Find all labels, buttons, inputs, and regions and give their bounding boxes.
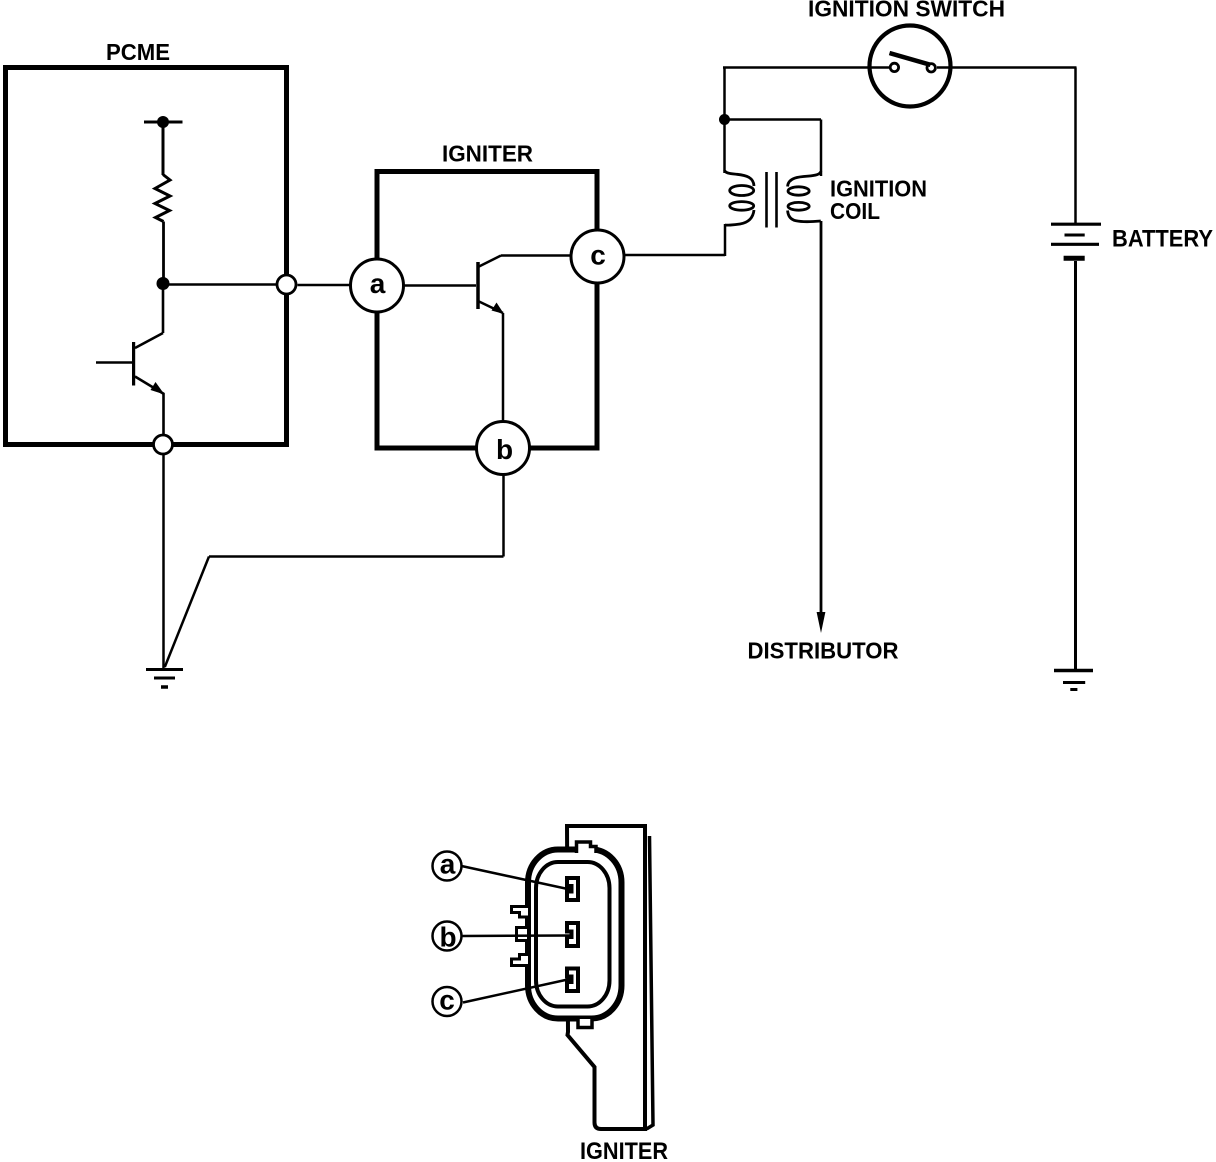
leader a xyxy=(462,866,571,890)
connector top tab xyxy=(577,842,597,853)
wire (coil junction to switch) xyxy=(723,66,890,69)
IGNITER box xyxy=(377,172,597,449)
connector bottom tab xyxy=(578,1019,592,1028)
wire (node b to ground) xyxy=(165,475,504,668)
pin label c xyxy=(433,985,462,1017)
wire (supply to resistor) xyxy=(162,122,165,175)
wire (junction to secondary top) xyxy=(725,120,822,177)
igniter connector body xyxy=(567,826,653,1129)
connector side key lower xyxy=(512,955,529,966)
wire (output terminal to node a) xyxy=(298,284,353,287)
svg-text:IGNITER: IGNITER xyxy=(580,1138,668,1162)
terminal (PCME output) xyxy=(277,275,296,294)
svg-text:COIL: COIL xyxy=(830,198,880,224)
wire (PCME ground pin down) xyxy=(162,455,165,669)
ground (battery) xyxy=(1054,671,1093,690)
ignition coil T1 core xyxy=(767,172,777,228)
pin b xyxy=(567,923,578,946)
wire (top feed from ignition switch) xyxy=(723,68,726,122)
svg-text:a: a xyxy=(370,268,386,299)
ignition switch S1 xyxy=(870,26,951,107)
svg-text:IGNITER: IGNITER xyxy=(442,141,533,167)
wire (secondary to distributor) xyxy=(820,221,823,614)
PCME box xyxy=(6,68,287,445)
pin a xyxy=(567,878,578,900)
wire (junction down to primary) xyxy=(723,120,726,174)
ignition coil T1 secondary winding xyxy=(788,171,821,222)
connector side key upper xyxy=(512,907,529,918)
svg-text:b: b xyxy=(496,434,513,465)
svg-text:c: c xyxy=(439,985,455,1016)
resistor R1 xyxy=(155,175,170,222)
node a xyxy=(351,259,404,312)
battery B1 xyxy=(1051,224,1101,258)
ignition coil T1 primary winding xyxy=(725,170,754,225)
leader c xyxy=(463,979,570,1003)
node b xyxy=(477,422,530,475)
connector inner oval xyxy=(536,862,610,1007)
pin c xyxy=(567,969,578,992)
svg-text:BATTERY: BATTERY xyxy=(1112,226,1213,253)
wire (node c to coil) xyxy=(624,224,725,256)
pin label a xyxy=(433,849,462,881)
connector shroud (outer oval) xyxy=(528,850,622,1019)
junction xyxy=(157,277,170,290)
wire (junction to output terminal) xyxy=(163,283,276,286)
connector side key middle xyxy=(517,928,528,941)
svg-text:b: b xyxy=(439,922,456,953)
junction (coil feed) xyxy=(719,114,730,125)
terminal (PCME ground pin) xyxy=(154,435,173,454)
label IGNITION COIL xyxy=(830,176,927,225)
svg-text:IGNITION SWITCH: IGNITION SWITCH xyxy=(808,0,1005,22)
distributor arrow xyxy=(817,612,826,633)
svg-text:DISTRIBUTOR: DISTRIBUTOR xyxy=(748,638,899,664)
wire (switch to battery) xyxy=(937,66,1077,69)
svg-text:PCME: PCME xyxy=(106,39,170,65)
leader b xyxy=(462,934,571,937)
svg-text:a: a xyxy=(440,849,456,880)
wire (resistor to junction) xyxy=(162,222,165,284)
node c xyxy=(571,230,624,283)
wire (battery top) xyxy=(1074,68,1077,224)
transistor Q2 xyxy=(403,256,571,423)
ground (left) xyxy=(146,670,183,688)
pin label b xyxy=(433,922,462,953)
wire (battery to ground) xyxy=(1074,261,1077,669)
power node (supply bar) xyxy=(144,116,183,128)
svg-text:c: c xyxy=(590,239,606,270)
transistor Q1 xyxy=(96,283,165,436)
